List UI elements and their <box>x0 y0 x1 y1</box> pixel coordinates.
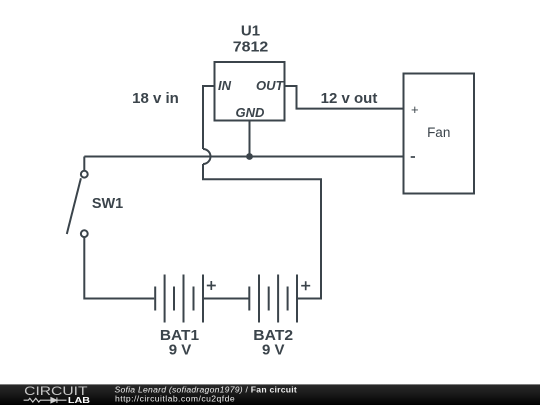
footer bar <box>0 384 540 405</box>
fan - terminal label <box>411 156 415 158</box>
battery BAT1 plates <box>155 275 203 323</box>
svg-text:OUT: OUT <box>256 78 285 93</box>
svg-text:GND: GND <box>236 105 266 120</box>
plus sign BAT2 <box>301 281 310 290</box>
svg-text:7812: 7812 <box>233 39 269 56</box>
svg-text:12 v out: 12 v out <box>321 90 378 107</box>
svg-text:+: + <box>411 102 419 117</box>
plus sign BAT1 <box>207 281 216 290</box>
wire OUT pin to Fan + <box>285 86 404 109</box>
fan box <box>404 74 475 194</box>
regulator U1 box <box>215 62 285 121</box>
junction dot GND node <box>246 153 253 160</box>
wire SW1 bottom to BAT1 <box>84 237 154 298</box>
switch SW1 bottom terminal <box>81 230 88 237</box>
svg-text:9 V: 9 V <box>169 342 192 359</box>
wire ground rail (SW1 to Fan -) <box>84 156 403 158</box>
wire hop (IN wire crossing ground rail) <box>203 149 211 164</box>
svg-text:9 V: 9 V <box>262 342 285 359</box>
svg-text:LAB: LAB <box>68 396 90 405</box>
svg-text:http://circuitlab.com/cu2qfde: http://circuitlab.com/cu2qfde <box>115 393 235 403</box>
svg-text:U1: U1 <box>241 23 260 40</box>
svg-text:IN: IN <box>218 78 232 93</box>
switch SW1 top terminal <box>81 171 88 178</box>
wire GND pin stub <box>249 121 251 157</box>
svg-text:Fan: Fan <box>427 125 450 140</box>
wire BAT1 + to BAT2 - <box>203 298 249 300</box>
battery BAT2 plates <box>249 275 297 323</box>
wire SW1 top riser <box>83 157 85 171</box>
svg-text:SW1: SW1 <box>92 195 123 212</box>
svg-text:18 v in: 18 v in <box>132 90 179 107</box>
switch SW1 blade <box>67 178 81 234</box>
wire IN pin to node (left, down, to battery net) <box>203 86 321 299</box>
circuitlab logo resistor + diode <box>24 397 67 403</box>
